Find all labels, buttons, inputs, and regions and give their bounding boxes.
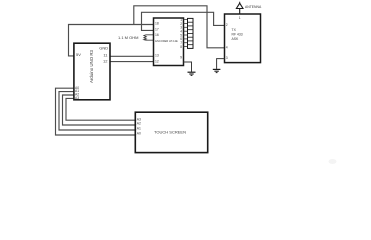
svg-text:8: 8 xyxy=(180,45,182,49)
svg-text:12: 12 xyxy=(155,59,159,63)
encoder HT-12E U2 xyxy=(154,18,184,66)
svg-text:TX: TX xyxy=(232,28,237,32)
svg-text:3: 3 xyxy=(226,56,228,60)
wire A0: Arduino A0 to touch screen A0 xyxy=(56,88,136,135)
svg-text:9: 9 xyxy=(180,55,182,59)
faint smudge bottom right xyxy=(329,159,337,164)
svg-text:13: 13 xyxy=(155,54,159,58)
wire Arduino 12 to encoder 12 xyxy=(110,61,154,63)
wire A3: Arduino A3 to touch screen A3 xyxy=(66,98,135,120)
resistor 1.1 M OHM (encoder osc pins 16-15) xyxy=(118,35,154,40)
svg-text:1: 1 xyxy=(239,16,241,20)
svg-text:GND: GND xyxy=(99,46,108,51)
svg-text:2: 2 xyxy=(226,23,228,27)
wire encoder pin9 to ground xyxy=(184,62,192,72)
svg-text:RF 433: RF 433 xyxy=(232,33,243,37)
TX RF 433 ASK module U3 xyxy=(225,14,261,63)
wire DOUT: encoder pin17 to RF pin2 xyxy=(142,12,225,30)
wire 5V rail: Arduino 5V to encoder pin18 xyxy=(69,25,154,56)
wire Arduino 11 to encoder 13 xyxy=(110,55,154,57)
svg-text:4: 4 xyxy=(226,45,228,49)
svg-text:A3: A3 xyxy=(75,96,79,100)
touch screen module xyxy=(135,112,207,152)
svg-text:Arduino UNO R3: Arduino UNO R3 xyxy=(89,49,94,83)
svg-text:ANTENNA: ANTENNA xyxy=(245,5,262,9)
svg-text:ASK: ASK xyxy=(232,37,240,41)
wire RF pin3 to ground xyxy=(217,59,225,69)
svg-text:ENCODER HT-12E: ENCODER HT-12E xyxy=(155,39,178,43)
svg-text:1.1 M OHM: 1.1 M OHM xyxy=(118,35,138,40)
svg-text:TOUCH SCREEN: TOUCH SCREEN xyxy=(154,130,186,135)
svg-text:A0: A0 xyxy=(137,131,141,135)
svg-text:18: 18 xyxy=(155,22,159,26)
wire A2: Arduino A2 to touch screen A2 xyxy=(63,95,136,125)
svg-text:A1: A1 xyxy=(137,126,141,130)
ground (RF module pin3) xyxy=(213,69,221,72)
encoder address pin stubs (pins 1-8) xyxy=(184,20,188,47)
DIP switch ladder on encoder pins 1-8 xyxy=(188,18,194,48)
svg-text:17: 17 xyxy=(155,27,159,31)
svg-text:A2: A2 xyxy=(137,121,141,125)
svg-text:12: 12 xyxy=(103,59,108,64)
ground (encoder pin9) xyxy=(188,72,196,75)
wire A1: Arduino A1 to touch screen A1 xyxy=(59,92,135,130)
Arduino UNO R3 module U1 xyxy=(74,43,110,100)
antenna xyxy=(236,2,262,14)
svg-text:16: 16 xyxy=(155,33,159,37)
svg-text:5V: 5V xyxy=(76,52,81,57)
wire VCC branch: junction up and over to RF pin4 xyxy=(134,6,225,48)
